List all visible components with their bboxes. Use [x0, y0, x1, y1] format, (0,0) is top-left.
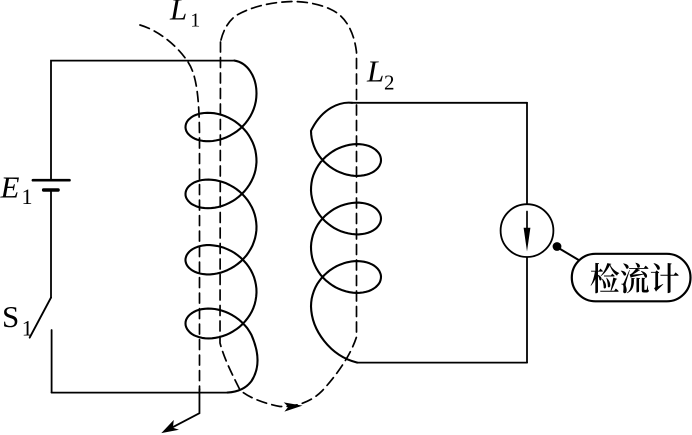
inductor L2 [311, 103, 381, 363]
svg-text:L: L [169, 0, 187, 27]
galvanometer G [501, 204, 554, 257]
inductor L1 [186, 61, 258, 393]
switch S1 blade [30, 298, 51, 338]
svg-text:1: 1 [190, 10, 200, 32]
wire switch to bottom [51, 330, 53, 393]
wire bottom-left [52, 392, 228, 394]
label E1 [0, 169, 33, 209]
svg-text:1: 1 [22, 184, 33, 209]
callout bubble [572, 254, 691, 301]
flux line A dashed (through L1, down-left arrow) [140, 25, 200, 390]
svg-text:S: S [2, 299, 19, 334]
label 检流计 (galvanometer) [591, 263, 679, 294]
svg-text:E: E [0, 169, 20, 204]
flux loop B dashed (linking L1 and L2) [220, 2, 357, 407]
flux loop B arrow [284, 402, 303, 411]
wire top-right (L2 to galvanometer branch) [352, 102, 527, 104]
wire top (battery to L1 top) [51, 61, 234, 179]
svg-text:2: 2 [384, 71, 395, 95]
wire battery to switch [50, 192, 52, 298]
callout tail [559, 248, 580, 261]
svg-text:1: 1 [22, 316, 33, 341]
label S1 [2, 299, 33, 340]
battery E1 [33, 180, 70, 190]
label L2 [366, 54, 395, 95]
wire right [526, 103, 528, 363]
wire bottom-right [357, 362, 527, 364]
label L1 [169, 0, 200, 32]
flux line A arrow [161, 389, 199, 433]
junction dot node [553, 242, 562, 251]
svg-text:L: L [366, 54, 384, 89]
